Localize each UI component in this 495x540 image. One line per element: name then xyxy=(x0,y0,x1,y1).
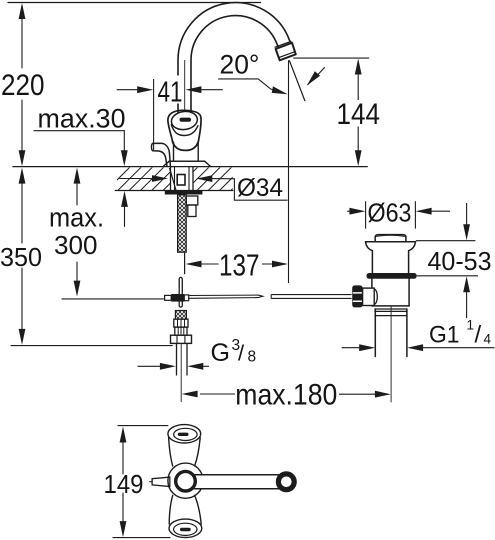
dimension Ø63 extension lines xyxy=(366,201,416,228)
svg-text:max.30: max.30 xyxy=(38,104,126,134)
drain flange right side xyxy=(409,242,416,273)
dimension G3/8 left arrow xyxy=(138,365,161,367)
drain plug cap xyxy=(375,235,406,242)
rod pivot crosshatch block xyxy=(175,311,186,320)
drain tail joint lines xyxy=(375,309,407,316)
svg-text:4: 4 xyxy=(484,332,492,347)
svg-text:/: / xyxy=(238,341,245,366)
wire max.300 reference line xyxy=(62,298,164,300)
drain body bottom xyxy=(372,305,409,307)
dimension 149 line xyxy=(122,443,124,522)
wire 40-53 upper reference line xyxy=(416,240,476,242)
dimension Ø34 leader left arrow xyxy=(119,178,153,180)
svg-text:max.: max. xyxy=(49,203,104,233)
handle cup lower rim xyxy=(171,125,198,136)
G3/8 hex nut xyxy=(171,335,192,343)
dimension 41 left arrow xyxy=(117,89,138,91)
dimension G1 1/4 line with arrows xyxy=(342,347,360,349)
plan upper handle outer ellipse xyxy=(168,425,201,443)
drain side knob knurled xyxy=(352,285,362,307)
svg-text:max.180: max.180 xyxy=(235,379,337,412)
drain body fillet arc xyxy=(374,289,377,305)
shank outer walls xyxy=(171,167,194,190)
svg-text:137: 137 xyxy=(219,247,260,282)
angle arc xyxy=(308,67,325,85)
horizontal rod left segment xyxy=(189,295,263,298)
pop-up rod vertical pin xyxy=(179,277,182,307)
locknut washer bar under deck xyxy=(165,191,203,195)
outlet 20 degree slant line xyxy=(289,60,305,101)
handle index dash xyxy=(182,118,189,122)
svg-text:/: / xyxy=(475,322,482,349)
dimension max.300 up arrowhead xyxy=(74,168,81,184)
shank through deck xyxy=(165,167,203,252)
dimension max.30 up arrowhead xyxy=(121,191,128,207)
svg-text:350: 350 xyxy=(0,242,42,272)
plan lower handle inner ellipse xyxy=(174,523,197,535)
dimension 350 down arrowhead xyxy=(19,329,26,345)
wire 350 bottom reference line xyxy=(11,345,172,347)
plan spout end cap bold ring xyxy=(278,474,294,490)
white gap for 41 label xyxy=(156,76,184,104)
plan upper handle dash xyxy=(180,433,187,436)
dimension 40-53 upper line and down arrowhead xyxy=(466,203,468,225)
plan body circle xyxy=(168,463,203,498)
handle top rim outer xyxy=(168,110,201,141)
wire 40-53 lower reference line xyxy=(417,275,478,277)
plan lever tick xyxy=(150,481,152,483)
wire 149 top reference line xyxy=(118,425,168,427)
plan upper handle inner ellipse xyxy=(174,428,197,440)
svg-text:Ø34: Ø34 xyxy=(237,174,283,202)
svg-text:40-53: 40-53 xyxy=(428,246,492,276)
rod clamp block xyxy=(171,294,184,302)
plan spout bar bottom line xyxy=(193,488,280,490)
dimension 350 up arrowhead xyxy=(19,168,26,184)
dimension max.30 drop line xyxy=(123,131,125,152)
dimension max.300 upper line xyxy=(76,171,78,205)
plan spout bar white mask xyxy=(193,475,279,489)
rod clamp left cap xyxy=(165,295,172,300)
deck hatching xyxy=(106,167,254,191)
wire deck counter top line xyxy=(13,166,367,168)
plan spout bar top line xyxy=(193,474,280,476)
svg-text:G: G xyxy=(211,339,230,367)
dimension 41 right arrow xyxy=(201,89,223,91)
svg-text:G1: G1 xyxy=(429,322,460,349)
svg-text:8: 8 xyxy=(248,349,257,366)
drain flange top xyxy=(366,241,416,243)
drain o-ring seal xyxy=(367,273,417,279)
drain flange left side xyxy=(366,242,373,273)
handle top rim inner xyxy=(170,110,198,131)
svg-text:149: 149 xyxy=(104,469,144,499)
spout gooseneck outer wall xyxy=(178,3,292,112)
dimension 40-53 lower line and up arrowhead xyxy=(466,292,468,318)
plan upper cone right edge xyxy=(195,438,201,467)
threaded adapter lower xyxy=(175,327,187,335)
base escutcheon xyxy=(163,161,210,166)
dimension 220 bottom arrowhead xyxy=(19,150,26,166)
shank stub lower xyxy=(188,205,196,217)
dimension 144 line xyxy=(357,74,359,151)
body neck right xyxy=(197,142,199,161)
shank mounting box xyxy=(177,175,185,186)
wire deck counter bottom line xyxy=(115,190,232,192)
drain knob shaft xyxy=(363,288,375,305)
drain body walls xyxy=(372,279,409,306)
dimension 350 vertical line xyxy=(21,171,23,341)
body neck left xyxy=(173,142,175,161)
handle bowl bottom xyxy=(172,141,198,150)
dimension 41 left extension line xyxy=(153,79,155,150)
dimension G3/8 right arrow xyxy=(203,365,209,367)
spout centerline xyxy=(184,60,186,111)
dimension 20 degree leader xyxy=(218,79,273,90)
dimension Ø63 left arrow xyxy=(347,210,350,212)
supply pipe centerline xyxy=(180,343,182,402)
threaded adapter upper xyxy=(174,319,188,327)
dimension max.300 down arrowhead xyxy=(74,281,81,297)
supply pipe walls xyxy=(177,343,188,375)
spout aerator block xyxy=(276,43,296,61)
spout aerator joint line xyxy=(275,42,291,48)
faucet axis extension line below hose xyxy=(184,253,186,275)
drain tailpipe walls xyxy=(375,309,407,357)
drain centerline xyxy=(390,306,392,402)
horizontal rod right segment xyxy=(271,295,351,299)
drain plug cap top line xyxy=(377,235,405,236)
svg-text:144: 144 xyxy=(337,98,381,131)
svg-text:20°: 20° xyxy=(220,50,260,80)
outlet vertical extension line xyxy=(288,60,290,283)
svg-text:220: 220 xyxy=(1,69,45,102)
svg-text:300: 300 xyxy=(54,232,98,260)
plan lower handle outer ellipse xyxy=(169,519,202,537)
dimension max.30 lower line xyxy=(124,207,126,227)
shank anchor wedge diagonal xyxy=(170,168,177,190)
dimension max.30 down arrowhead xyxy=(121,150,128,166)
plan lower handle dash xyxy=(182,528,189,531)
dimension Ø63 right arrow xyxy=(431,210,450,212)
dimension Ø34 leader right arrow and box xyxy=(212,179,288,201)
plan lower cone right edge xyxy=(195,495,202,524)
plan bold attachment ring xyxy=(176,471,196,491)
dimension 220 vertical line xyxy=(21,6,23,163)
supply hose crosshatched xyxy=(178,195,187,252)
dimension max.30 underline xyxy=(34,130,124,132)
shank stub upper xyxy=(186,196,198,205)
svg-text:Ø63: Ø63 xyxy=(368,198,412,228)
plan lever xyxy=(152,477,170,486)
shank inner walls xyxy=(175,167,190,190)
dimension max.180 line xyxy=(200,393,235,395)
svg-text:41: 41 xyxy=(158,77,183,109)
dimension max.300 lower line xyxy=(76,262,78,293)
wire 144 top reference line xyxy=(293,57,369,59)
base escutcheon top line xyxy=(169,160,204,162)
spout aerator inner line xyxy=(279,52,295,58)
svg-text:1: 1 xyxy=(467,318,475,333)
dimension 137 line xyxy=(201,263,273,265)
plan lower cone left edge xyxy=(169,495,173,524)
wire top reference line at spout apex level xyxy=(8,2,261,4)
dimension 220 top arrowhead xyxy=(19,3,26,19)
spout gooseneck inner wall xyxy=(191,16,278,112)
lever arm xyxy=(151,143,170,166)
plan upper cone left edge xyxy=(169,438,173,467)
wire 149 bottom reference line xyxy=(113,537,170,539)
rod clamp right cap xyxy=(184,295,188,301)
